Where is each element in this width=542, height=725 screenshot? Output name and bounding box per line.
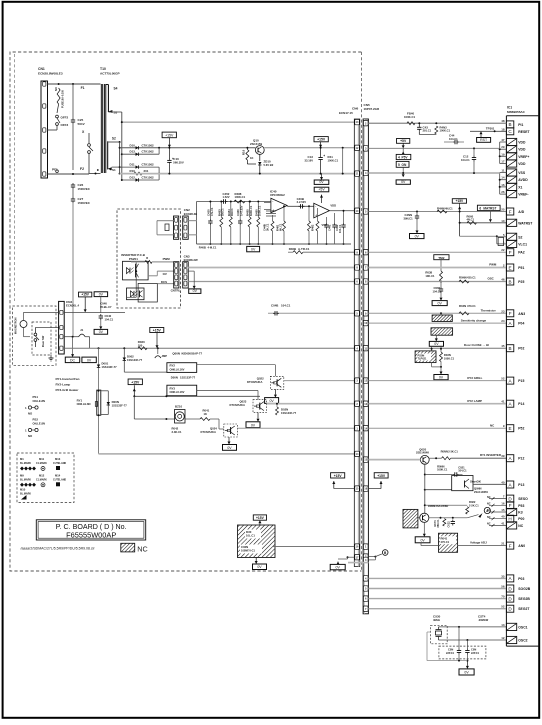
driver Q009 xyxy=(77,390,128,416)
net box DC xyxy=(65,337,79,363)
svg-text:Q022: Q022 xyxy=(257,377,264,381)
svg-text:52: 52 xyxy=(501,377,505,381)
svg-text:RY2-Lamp: RY2-Lamp xyxy=(56,383,71,387)
wire AD xyxy=(368,206,506,213)
svg-text:.00MGW: .00MGW xyxy=(478,618,489,622)
fiducial marks box xyxy=(17,453,74,503)
svg-text:M1: M1 xyxy=(20,457,24,461)
wire RESET xyxy=(470,127,506,133)
VDD bracket xyxy=(499,142,507,164)
svg-text:2-2.52V: 2-2.52V xyxy=(297,200,307,204)
svg-text:CN6: CN6 xyxy=(352,107,358,111)
svg-text:39: 39 xyxy=(501,454,505,458)
svg-text:Door SW: Door SW xyxy=(41,335,45,347)
svg-text:39N.C1: 39N.C1 xyxy=(404,216,414,220)
svg-text:VDD: VDD xyxy=(330,204,336,208)
svg-text:+15V: +15V xyxy=(153,328,162,332)
pin WATRST xyxy=(501,219,533,227)
svg-text:VREF+: VREF+ xyxy=(518,155,529,159)
svg-text:24: 24 xyxy=(501,319,505,323)
Q021 base chain xyxy=(424,490,479,514)
svg-text:FUSE.8A-0.1W: FUSE.8A-0.1W xyxy=(61,90,65,108)
power label +15V d30 xyxy=(253,515,266,525)
svg-text:ON6.L6.16V: ON6.L6.16V xyxy=(170,368,185,372)
svg-text:B: B xyxy=(509,279,512,284)
svg-text:RST: RST xyxy=(480,138,488,142)
svg-text:100NF.V-C1: 100NF.V-C1 xyxy=(241,549,256,553)
svg-text:0V: 0V xyxy=(227,446,232,450)
svg-text:RY2: RY2 xyxy=(170,364,176,368)
svg-text:VDD: VDD xyxy=(518,162,526,166)
text CN3 labels xyxy=(161,257,181,293)
svg-text:VDD: VDD xyxy=(518,148,526,152)
svg-text:JMP: JMP xyxy=(162,354,168,358)
svg-text:C460: C460 xyxy=(236,209,240,216)
pin P15 xyxy=(506,377,524,384)
VSS bracket xyxy=(499,173,507,195)
resistor R481 xyxy=(276,205,286,245)
inverter board boundary (dashed) xyxy=(117,209,180,308)
svg-text:470.C1: 470.C1 xyxy=(467,304,476,308)
zener ZD10 xyxy=(258,154,274,174)
capacitor C40B xyxy=(287,197,314,209)
pin K3 xyxy=(487,508,523,516)
svg-text:Q023: Q023 xyxy=(240,400,247,404)
net box F xyxy=(247,246,260,251)
capacitor C452 xyxy=(222,192,252,204)
node A xyxy=(484,507,490,513)
svg-text:0V: 0V xyxy=(251,248,256,252)
svg-text:R0NN: R0NN xyxy=(441,450,448,454)
svg-text:ON.LE.8N: ON.LE.8N xyxy=(33,421,45,425)
svg-text:Door CLOSE → HI: Door CLOSE → HI xyxy=(464,343,489,347)
transistor Q020 xyxy=(368,447,506,464)
svg-text:R46B: R46B xyxy=(289,247,296,251)
net 0V q021 xyxy=(415,522,430,542)
svg-text:M13: M13 xyxy=(55,457,61,461)
svg-text:1M.C1: 1M.C1 xyxy=(230,208,234,216)
svg-text:C30N: C30N xyxy=(241,545,248,549)
svg-text:5: 5 xyxy=(398,163,400,167)
wire P15 xyxy=(368,376,506,381)
switch X xyxy=(82,130,101,175)
svg-text:1SS133F-77: 1SS133F-77 xyxy=(180,375,196,379)
svg-text:PWM: PWM xyxy=(489,263,497,267)
svg-text:R482: R482 xyxy=(311,224,315,231)
connector CN6 label xyxy=(339,107,358,116)
svg-text:05.BL.C7: 05.BL.C7 xyxy=(100,305,112,309)
svg-text:AVDD: AVDD xyxy=(518,178,528,182)
wire OSC1 xyxy=(439,626,507,628)
svg-text:F65555W00AP: F65555W00AP xyxy=(66,531,116,540)
connector CN4 xyxy=(59,300,80,354)
wire P14 xyxy=(368,399,506,404)
net box 0V a xyxy=(94,329,108,334)
svg-text:47: 47 xyxy=(501,138,505,142)
svg-text:ECN28.8W08LE3: ECN28.8W08LE3 xyxy=(38,72,63,76)
svg-text:26: 26 xyxy=(501,190,505,194)
svg-text:M9: M9 xyxy=(20,474,24,478)
svg-text:P53: P53 xyxy=(518,504,524,508)
svg-text:0V: 0V xyxy=(415,234,420,238)
svg-text:A/D: A/D xyxy=(518,210,524,214)
resistor R43 xyxy=(419,125,450,134)
svg-text:E: E xyxy=(509,426,512,431)
pin P13 xyxy=(506,481,524,488)
svg-text:X1: X1 xyxy=(518,185,522,189)
svg-text:F: F xyxy=(509,503,512,508)
svg-text:F: F xyxy=(509,543,512,548)
svg-text:104.C1: 104.C1 xyxy=(433,289,442,293)
svg-text:5.6V B2: 5.6V B2 xyxy=(264,163,274,167)
svg-text:OSC2: OSC2 xyxy=(518,639,527,643)
wire RY3 to Q023 xyxy=(197,391,258,400)
ground xyxy=(49,355,54,361)
connector CN2 right strip xyxy=(183,208,197,239)
svg-text:15: 15 xyxy=(501,508,505,512)
svg-text:820K.C1: 820K.C1 xyxy=(249,205,253,216)
svg-text:201: 201 xyxy=(144,169,149,173)
svg-text:RY1 INVERTER: RY1 INVERTER xyxy=(480,453,502,457)
svg-text:M12: M12 xyxy=(39,474,45,478)
resistor R038 xyxy=(425,271,442,283)
svg-text:70: 70 xyxy=(501,595,505,599)
svg-text:1500VEX: 1500VEX xyxy=(78,187,90,191)
power label +15V bridge xyxy=(162,132,176,148)
switch OFF2/OFF3 xyxy=(48,104,69,130)
capacitor C43 xyxy=(417,123,432,134)
capacitor C44 xyxy=(444,134,464,145)
pin SEG2T xyxy=(501,605,530,613)
svg-text:OFF3: OFF3 xyxy=(61,123,69,127)
svg-text:P04: P04 xyxy=(518,322,524,326)
transistor Q024 xyxy=(201,424,355,437)
diode D001 xyxy=(97,348,117,454)
wire S2 vertical xyxy=(119,142,121,175)
svg-text:0V: 0V xyxy=(99,292,104,296)
svg-text:MAGNETRON: MAGNETRON xyxy=(15,317,18,334)
svg-text:CUTELAND: CUTELAND xyxy=(53,478,66,481)
svg-text:0.47.52V: 0.47.52V xyxy=(240,205,244,216)
wire y312 xyxy=(24,311,126,313)
svg-text:+15V: +15V xyxy=(334,474,343,478)
door area dashed box xyxy=(13,306,57,365)
door switch xyxy=(34,328,59,348)
resistor R020 xyxy=(138,340,147,350)
svg-text:S4: S4 xyxy=(114,87,118,91)
svg-text:BL.MARK: BL.MARK xyxy=(20,478,31,481)
svg-text:VLC1: VLC1 xyxy=(518,242,527,246)
buzzer BZ10 xyxy=(172,405,186,435)
svg-text:0V: 0V xyxy=(434,342,439,346)
svg-text:F2: F2 xyxy=(80,167,84,171)
resistor D02N xyxy=(276,403,297,415)
hatched part D34 xyxy=(432,313,452,321)
svg-text:17: 17 xyxy=(501,160,505,164)
resistor FB40 xyxy=(368,112,506,125)
svg-text:P52: P52 xyxy=(518,427,524,431)
wire P13 xyxy=(470,480,506,485)
svg-text:45: 45 xyxy=(501,344,505,348)
svg-text:B: B xyxy=(509,346,512,351)
svg-text:47L.C1: 47L.C1 xyxy=(210,207,214,216)
power label +15V relay xyxy=(128,379,260,419)
svg-text:Thermistor: Thermistor xyxy=(481,309,497,313)
svg-text:2SA1458R: 2SA1458R xyxy=(436,504,449,508)
svg-text:P00: P00 xyxy=(518,517,524,521)
svg-text:/aaaar2/SDMAC/27L/5.5R9/PP/DU/: /aaaar2/SDMAC/27L/5.5R9/PP/DU/5.5R9.08.c… xyxy=(21,547,96,551)
pin P52 xyxy=(506,425,524,432)
pin AN0 xyxy=(506,542,525,549)
net box 0V q023 xyxy=(246,413,260,428)
svg-text:R40B: R40B xyxy=(199,246,206,250)
connector CN3 right strip xyxy=(183,255,198,288)
resistor R041buz xyxy=(185,409,224,430)
relay RY3 xyxy=(167,385,197,396)
svg-text:P5V: P5V xyxy=(402,156,409,160)
svg-text:19: 19 xyxy=(501,152,505,156)
svg-text:+15V: +15V xyxy=(81,293,89,297)
svg-text:AN3: AN3 xyxy=(518,312,525,316)
svg-text:40: 40 xyxy=(501,515,505,519)
wire SEG2T xyxy=(368,608,506,610)
optocoupler PS201 xyxy=(123,256,174,297)
svg-text:D30: D30 xyxy=(246,530,252,534)
pin P03 xyxy=(501,574,524,582)
svg-text:C441: C441 xyxy=(328,224,332,231)
svg-text:41: 41 xyxy=(501,400,505,404)
svg-text:560.35V: 560.35V xyxy=(173,161,184,165)
component R483 xyxy=(217,201,224,246)
svg-text:0V: 0V xyxy=(251,423,256,427)
svg-text:22P.C1: 22P.C1 xyxy=(446,652,455,655)
svg-text:100K.C1: 100K.C1 xyxy=(440,129,451,133)
svg-text:TLP621: TLP621 xyxy=(418,358,428,361)
svg-text:104.C1: 104.C1 xyxy=(281,304,291,308)
part PS2 xyxy=(25,418,45,439)
wire C-E xyxy=(342,148,344,175)
svg-text:R0NN: R0NN xyxy=(459,275,467,279)
svg-text:DC: DC xyxy=(70,358,76,362)
power label +15V cn4 xyxy=(79,292,92,312)
svg-text:Q00N: Q00N xyxy=(172,352,180,356)
net box 0V b xyxy=(82,357,96,363)
svg-text:P14: P14 xyxy=(518,402,524,406)
svg-text:J1: J1 xyxy=(80,328,84,332)
svg-text:22: 22 xyxy=(501,248,505,252)
svg-text:25: 25 xyxy=(501,208,505,212)
svg-text:10: 10 xyxy=(501,219,505,223)
svg-text:ON6.L6.16V: ON6.L6.16V xyxy=(170,390,185,394)
capacitor C10 xyxy=(167,148,184,174)
svg-text:48: 48 xyxy=(501,119,505,123)
svg-text:100K.C1: 100K.C1 xyxy=(444,356,455,360)
svg-text:C1.MARK: C1.MARK xyxy=(36,462,47,465)
svg-text:RY1-Inverter/Fan: RY1-Inverter/Fan xyxy=(56,377,80,381)
board boundary (dashed) xyxy=(10,52,361,571)
pin OSC1 xyxy=(501,623,527,631)
op-amp2 bias parts xyxy=(308,206,346,245)
reset box RST xyxy=(477,131,491,142)
svg-text:Voltage ADJ: Voltage ADJ xyxy=(470,541,487,545)
pin NC xyxy=(487,521,524,529)
svg-text:10K.C1: 10K.C1 xyxy=(425,274,435,278)
capacitor C25 xyxy=(71,84,86,170)
svg-text:RY2 LAMP: RY2 LAMP xyxy=(467,399,482,403)
svg-text:35: 35 xyxy=(501,574,505,578)
svg-text:CX30: CX30 xyxy=(433,615,441,619)
connector CN1 xyxy=(38,67,63,178)
AC source xyxy=(15,312,31,336)
svg-text:UPC358G2: UPC358G2 xyxy=(270,193,285,197)
wire P03 xyxy=(368,577,506,579)
pin SEG2B xyxy=(501,595,530,603)
net box 0V d35 xyxy=(429,341,443,352)
svg-text:RY3 GRILL: RY3 GRILL xyxy=(467,376,482,380)
wire door net left xyxy=(64,347,354,349)
svg-text:NC: NC xyxy=(487,503,491,506)
svg-text:PS1: PS1 xyxy=(33,395,39,399)
svg-text:OFF2: OFF2 xyxy=(61,116,69,120)
svg-text:0V: 0V xyxy=(439,376,444,380)
svg-text:PA2: PA2 xyxy=(518,251,524,255)
wire AN3 xyxy=(368,304,506,315)
load caps xyxy=(439,627,486,662)
svg-text:RY3-Grill Heater: RY3-Grill Heater xyxy=(56,388,80,392)
optocoupler PS202 xyxy=(127,283,158,302)
op-amp IC40 xyxy=(264,190,287,217)
svg-text:430.C1: 430.C1 xyxy=(467,275,476,279)
power label +15V ic20 xyxy=(150,328,164,349)
svg-text:CTA1502: CTA1502 xyxy=(142,143,155,147)
svg-text:ON: ON xyxy=(402,163,407,167)
svg-text:D11: D11 xyxy=(130,163,136,167)
net box DB cn3 xyxy=(188,271,201,293)
transistor Q023 xyxy=(230,400,355,413)
connector CN6 body xyxy=(354,119,360,567)
pin AN3 xyxy=(506,310,525,317)
svg-text:29: 29 xyxy=(501,145,505,149)
power label +5V xyxy=(397,139,410,149)
crystal ground wire xyxy=(427,632,469,669)
wire filter bottom rail xyxy=(197,244,352,250)
file path text xyxy=(21,547,96,551)
capacitor C4A xyxy=(404,212,425,239)
crystal X30 xyxy=(431,625,448,644)
svg-text:1K: 1K xyxy=(204,412,207,416)
wire P51 xyxy=(368,263,506,268)
component R484 xyxy=(227,201,234,246)
pin P02 xyxy=(506,345,524,352)
svg-text:OSC: OSC xyxy=(488,277,495,281)
svg-text:SEG2B: SEG2B xyxy=(518,597,530,601)
resistor C44B xyxy=(263,215,275,245)
svg-text:BL.MARK: BL.MARK xyxy=(20,492,31,495)
net box 0V xtal xyxy=(459,669,474,675)
svg-text:P13: P13 xyxy=(518,483,524,487)
svg-text:100K.C1: 100K.C1 xyxy=(437,467,448,471)
svg-text:M14: M14 xyxy=(55,474,61,478)
svg-text:1M.C1: 1M.C1 xyxy=(221,208,225,216)
svg-text:P02: P02 xyxy=(518,347,524,351)
svg-text:D001: D001 xyxy=(102,362,109,366)
net box CN30 xyxy=(330,564,345,569)
svg-text:+15V: +15V xyxy=(131,380,140,384)
svg-text:D00N: D00N xyxy=(112,400,119,404)
svg-text:RY3: RY3 xyxy=(170,386,176,390)
pins VDD group xyxy=(501,138,529,167)
component C450 xyxy=(206,201,213,246)
wire long gray xyxy=(99,453,355,455)
transistor Q022 xyxy=(247,376,354,389)
svg-text:NO: NO xyxy=(54,87,58,91)
wire RY2 to Q022 xyxy=(197,365,276,377)
component R485 xyxy=(246,201,253,246)
svg-text:104.C1: 104.C1 xyxy=(458,469,467,473)
svg-text:TM2: TM2 xyxy=(438,256,444,260)
hatched part D35 xyxy=(431,328,453,342)
svg-text:D10: D10 xyxy=(130,143,136,147)
svg-text:ECN17.15: ECN17.15 xyxy=(339,111,353,115)
svg-text:C040: C040 xyxy=(105,314,112,318)
svg-text:100K.C1: 100K.C1 xyxy=(235,195,246,199)
svg-text:100K.C1: 100K.C1 xyxy=(404,115,415,119)
svg-text:DTC625JKA: DTC625JKA xyxy=(230,403,245,407)
svg-text:KID65003AP-77: KID65003AP-77 xyxy=(182,352,203,356)
svg-text:C1.MARK: C1.MARK xyxy=(36,478,47,481)
svg-text:0V: 0V xyxy=(336,566,341,570)
wire PWM xyxy=(188,267,354,269)
net box 0V q024 xyxy=(223,437,237,450)
diode D002 xyxy=(123,348,167,372)
svg-text:D480: D480 xyxy=(254,209,258,216)
svg-text:M11: M11 xyxy=(39,457,45,461)
pin P53 xyxy=(487,501,524,509)
svg-text:F: F xyxy=(509,209,512,214)
diode D12 xyxy=(121,174,159,182)
wire SOG2B xyxy=(368,588,506,590)
svg-text:OSC1: OSC1 xyxy=(518,625,527,629)
svg-text:0V: 0V xyxy=(99,330,104,334)
component C460 xyxy=(236,201,243,246)
svg-text:VSS: VSS xyxy=(518,171,526,175)
pin P04 xyxy=(506,320,524,327)
capacitor C060 xyxy=(432,282,447,306)
pin PA2 xyxy=(501,248,525,256)
hatched part D30 xyxy=(238,525,276,558)
wire S3 vertical xyxy=(108,112,122,180)
svg-text:CTA1502: CTA1502 xyxy=(142,163,155,167)
svg-text:BL.MARK: BL.MARK xyxy=(20,462,31,465)
power label +15V colR xyxy=(368,473,388,489)
svg-text:B: B xyxy=(509,122,512,127)
power label +15V colL xyxy=(331,473,355,489)
connector CN5 label xyxy=(364,103,381,111)
wire PI1 xyxy=(368,122,506,124)
svg-text:RY1: RY1 xyxy=(77,399,83,403)
pin OSC2 xyxy=(501,636,527,644)
svg-text:SESO: SESO xyxy=(518,497,528,501)
svg-text:1SS133F-77: 1SS133F-77 xyxy=(112,404,128,408)
svg-text:ACT75L00GP: ACT75L00GP xyxy=(100,72,120,76)
wires CN2 left xyxy=(157,221,174,235)
svg-text:56: 56 xyxy=(501,585,505,589)
svg-text:S2: S2 xyxy=(518,235,522,239)
capacitor C13 xyxy=(305,148,339,175)
svg-text:NC: NC xyxy=(487,516,491,519)
wire D30 to columns xyxy=(273,546,355,548)
pin RESET xyxy=(501,127,530,135)
